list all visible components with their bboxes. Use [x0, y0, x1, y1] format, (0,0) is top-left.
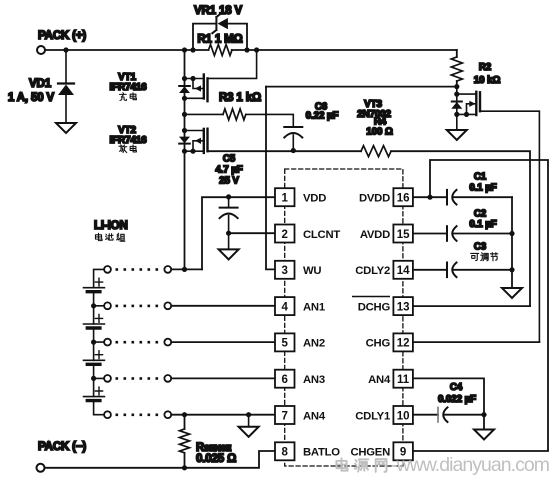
wire C1-C3 common to ground	[511, 197, 513, 288]
wire pin14 CDLY2	[413, 269, 447, 271]
svg-text:CHG: CHG	[366, 338, 391, 350]
resistor R1	[209, 45, 232, 56]
svg-text:CHGEN: CHGEN	[350, 447, 390, 459]
node right tap circles	[164, 266, 171, 418]
ground below C5	[219, 249, 239, 259]
wire pin2 CLCNT to C5	[229, 232, 275, 234]
transistor VT3 2N7002	[451, 84, 539, 342]
svg-text:IFR7416: IFR7416	[110, 82, 148, 93]
svg-text:5: 5	[281, 338, 288, 350]
svg-text:0.1 µF: 0.1 µF	[469, 219, 496, 230]
svg-text:C1: C1	[474, 172, 487, 183]
body diode VT1	[182, 76, 187, 81]
svg-text:BATLO: BATLO	[303, 447, 340, 459]
wire PACK- line to BATLO	[45, 451, 275, 468]
svg-text:8: 8	[281, 447, 288, 459]
node PACK (+) terminal	[37, 46, 45, 54]
transistor VT1 IFR7416 (charge P-FET)	[179, 50, 257, 101]
wire AN1 row	[171, 305, 275, 307]
battery cell 1	[84, 287, 105, 289]
wire battery chain	[94, 269, 104, 414]
node battery tap circle 1	[104, 266, 111, 273]
resistor R2	[456, 50, 458, 87]
junction dot at rail tap	[182, 47, 187, 52]
capacitor C6	[284, 127, 302, 153]
svg-text:AVDD: AVDD	[360, 229, 390, 241]
svg-text:WU: WU	[303, 265, 321, 277]
svg-text:10: 10	[397, 410, 410, 422]
svg-text:AN1: AN1	[303, 301, 325, 313]
wire pin13 DCHG to R4 net	[413, 305, 530, 307]
junction dot VT1 gate branch	[254, 47, 259, 52]
resistor RSENSE	[184, 415, 186, 468]
svg-text:3: 3	[281, 265, 287, 277]
svg-text:PACK (+): PACK (+)	[38, 30, 86, 42]
svg-text:-www.dianyuan.com: -www.dianyuan.com	[391, 454, 550, 476]
VT1 gate wire to main line	[208, 50, 257, 78]
svg-text:PACK (−): PACK (−)	[38, 441, 86, 453]
wire pin12 CHG to VT3 gate	[413, 341, 540, 343]
capacitor C1	[447, 190, 512, 205]
pin names left	[303, 193, 340, 459]
zener VR1	[193, 14, 247, 50]
wire vertical to pin 3 WU	[266, 87, 275, 270]
wire AN3 row	[171, 377, 275, 379]
svg-text:AN3: AN3	[303, 374, 325, 386]
junction dot at VD1 tap	[63, 47, 68, 52]
svg-text:R1 1 MΩ: R1 1 MΩ	[197, 34, 242, 46]
ground below C1-C3	[502, 288, 522, 298]
VT1 gate bar	[206, 78, 208, 101]
svg-text:DVDD: DVDD	[359, 193, 390, 205]
wire pin11 AN4 to C4	[413, 378, 484, 414]
svg-text:0.22 µF: 0.22 µF	[306, 111, 339, 122]
wire VT2 gate line to R4/DCHG	[208, 151, 531, 306]
ground below VD1	[56, 123, 76, 133]
svg-text:C2: C2	[474, 209, 487, 220]
VT3 channel bar	[475, 92, 477, 115]
VT3 gate bar	[479, 92, 481, 111]
svg-text:25 V: 25 V	[219, 176, 239, 187]
svg-text:VR1 18 V: VR1 18 V	[194, 5, 243, 17]
svg-text:14: 14	[397, 265, 410, 277]
battery cell 3	[84, 359, 105, 361]
overline for DCHG	[352, 296, 390, 298]
body diode VT3	[452, 101, 462, 103]
VT3 gate wire to CHG	[480, 111, 539, 342]
IC dashed outline	[285, 169, 403, 466]
svg-text:C3: C3	[474, 242, 487, 253]
svg-text:2N7002: 2N7002	[357, 109, 391, 120]
pin numbers	[281, 193, 410, 459]
svg-text:15: 15	[397, 229, 410, 241]
node PACK (-) terminal	[37, 464, 45, 472]
capacitor C4	[438, 407, 487, 429]
svg-text:0.022 µF: 0.022 µF	[438, 394, 476, 405]
svg-text:2: 2	[281, 229, 287, 241]
svg-text:CDLY2: CDLY2	[355, 265, 390, 277]
VT3 drain wire	[457, 93, 477, 95]
VT2 gate bar	[206, 129, 208, 152]
svg-text:1 A, 50 V: 1 A, 50 V	[8, 92, 55, 104]
plus marks	[95, 278, 102, 395]
diode VD1	[58, 50, 74, 123]
svg-text:AN4: AN4	[368, 374, 391, 386]
body diode VT2 (pointing down)	[179, 143, 190, 145]
svg-text:100 Ω: 100 Ω	[366, 127, 393, 138]
capacitor C5	[220, 194, 238, 249]
ground at AN4 row	[248, 415, 250, 427]
IC pin boxes right	[393, 188, 413, 460]
svg-text:16: 16	[397, 193, 410, 205]
svg-text:CLCNT: CLCNT	[303, 229, 340, 241]
svg-text:4.7 µF: 4.7 µF	[215, 165, 242, 176]
svg-text:DCHG: DCHG	[358, 301, 391, 313]
svg-text:CDLY1: CDLY1	[355, 410, 390, 422]
wire pin16 DVDD net	[413, 196, 447, 198]
VT2 bottom wire	[185, 150, 204, 152]
svg-text:IFR7416: IFR7416	[110, 135, 148, 146]
wire main PACK+ line	[46, 49, 457, 51]
resistor R4	[361, 146, 391, 157]
svg-text:AN2: AN2	[303, 338, 325, 350]
junction dot R1 right	[244, 47, 249, 52]
ground below VT3	[447, 130, 467, 140]
svg-text:11: 11	[397, 374, 410, 386]
VT3 source wire	[457, 113, 477, 115]
svg-text:C4: C4	[450, 382, 463, 393]
resistor R3	[185, 114, 294, 127]
VT2 body tap with arrow	[193, 141, 204, 151]
svg-text:10 kΩ: 10 kΩ	[474, 75, 501, 86]
capacitor C2	[447, 226, 512, 241]
wire pin1 VDD to battery+	[202, 197, 275, 269]
svg-text:13: 13	[397, 301, 410, 313]
svg-text:VDD: VDD	[303, 193, 326, 205]
svg-text:VD1: VD1	[29, 78, 52, 90]
VT2 channel bar	[203, 129, 205, 153]
svg-text:AN4: AN4	[303, 410, 326, 422]
ground below C4	[474, 430, 494, 440]
svg-text:R3 1 kΩ: R3 1 kΩ	[219, 92, 261, 104]
svg-text:12: 12	[397, 338, 410, 350]
battery cells chain	[84, 266, 111, 418]
capacitor C3	[447, 263, 512, 278]
wire pin10 CDLY1	[413, 414, 438, 416]
svg-text:4: 4	[281, 301, 288, 313]
pin names right	[350, 193, 391, 459]
wire battery top row to rail and VDD	[171, 268, 202, 270]
VT2 top wire	[185, 130, 204, 132]
watermark	[336, 458, 386, 472]
svg-text:0.1 µF: 0.1 µF	[469, 183, 496, 194]
svg-text:R2: R2	[479, 62, 492, 73]
VT3 body tap with arrow	[467, 104, 477, 115]
battery cell 2	[84, 323, 105, 325]
IC pin boxes left	[275, 188, 295, 460]
battery cell 4	[84, 396, 105, 398]
VT1 source wire	[185, 97, 204, 99]
svg-text:1: 1	[281, 193, 288, 205]
VT1 drain wire	[185, 78, 204, 80]
VT1 body tap with arrow	[193, 79, 204, 89]
VT1 channel bar	[203, 75, 205, 99]
svg-text:C5: C5	[223, 154, 236, 165]
svg-text:0.025 Ω: 0.025 Ω	[196, 453, 236, 465]
wire pin15 AVDD	[413, 233, 447, 235]
svg-text:LI-ION: LI-ION	[94, 220, 128, 232]
wire AN4 row	[171, 414, 275, 416]
dotted connection rows	[116, 268, 159, 416]
wire AN2 row	[171, 341, 275, 343]
junction dot R1 left	[190, 47, 195, 52]
svg-text:7: 7	[281, 410, 287, 422]
wire rail from PACK+ down to battery top	[184, 50, 186, 269]
transistor VT2 IFR7416 (discharge P-FET)	[179, 128, 208, 154]
svg-text:6: 6	[281, 374, 287, 386]
wire R2 bottom to WU vertical	[266, 86, 457, 88]
